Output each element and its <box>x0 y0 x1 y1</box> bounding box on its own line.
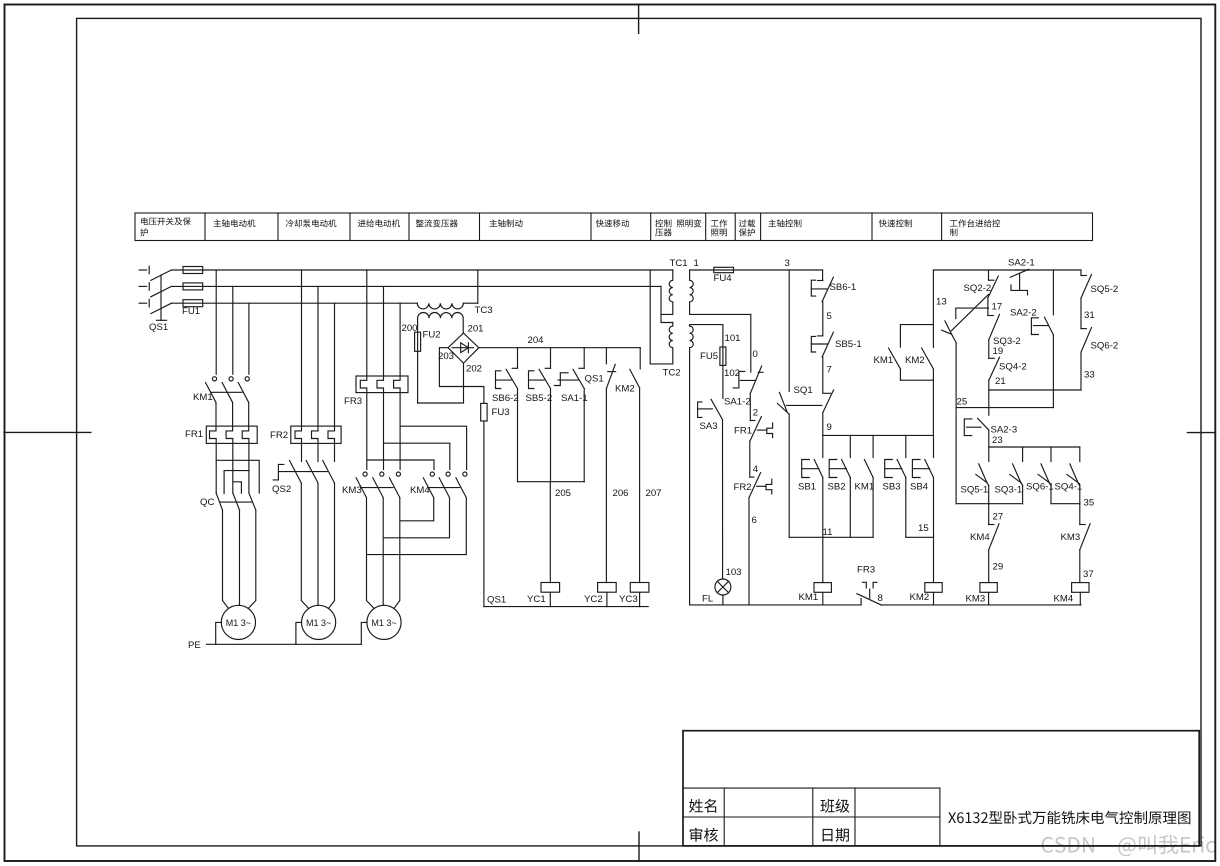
svg-text:33: 33 <box>1084 370 1095 381</box>
transformer TC1 primary <box>661 258 688 314</box>
wire L3 bus <box>171 302 417 304</box>
svg-text:202: 202 <box>466 364 482 375</box>
wire L2 drop through FR2 pole2 <box>312 286 319 461</box>
wire M3 to PE <box>361 622 367 644</box>
svg-text:SB6-1: SB6-1 <box>830 282 857 293</box>
header cell text 过载保护 <box>739 219 756 236</box>
svg-text:SQ4-2: SQ4-2 <box>999 362 1027 373</box>
svg-text:SQ6-2: SQ6-2 <box>1091 341 1119 352</box>
wire node 27 <box>989 504 1003 525</box>
wire KM4 pole1 crossover to phase3 <box>400 498 434 521</box>
switch contact QS1 auxiliary <box>585 348 616 389</box>
wire KM3 outputs to motor M3 <box>367 498 400 609</box>
coil KM3 <box>966 583 998 605</box>
wire node 21 bus <box>989 376 1081 390</box>
header cell text 冷却泵电动机 <box>286 219 337 227</box>
svg-text:SA2-2: SA2-2 <box>1010 308 1037 319</box>
wire M2 to PE <box>296 622 302 644</box>
fuse FU2 <box>402 323 441 403</box>
svg-text:207: 207 <box>646 488 662 499</box>
svg-text:KM4: KM4 <box>970 532 990 543</box>
wire FR3 pole2 feed to KM4 pole2 <box>384 443 450 469</box>
svg-text:KM3: KM3 <box>1061 532 1081 543</box>
transformer TC2 primary <box>650 323 680 379</box>
svg-text:201: 201 <box>468 324 484 335</box>
svg-text:37: 37 <box>1083 569 1094 580</box>
wire node 0 from TC1 secondary <box>751 314 758 372</box>
wire bridge node 203 to FU3 <box>439 348 484 404</box>
watermark CSDN <box>1042 835 1216 856</box>
header cell text 主轴制动 <box>490 219 523 227</box>
svg-text:FL: FL <box>702 594 714 605</box>
wire clutch return rail <box>484 606 648 608</box>
svg-text:102: 102 <box>724 368 740 379</box>
title block outline <box>683 731 1199 846</box>
svg-text:SA3: SA3 <box>700 421 718 432</box>
wire SQ3-1 to lower bus <box>1022 485 1024 503</box>
wire SB2 to node 11 bus <box>849 478 851 538</box>
svg-text:SB4: SB4 <box>910 482 929 493</box>
wire lower bus SQ5-1/SQ3-1 to node 25 <box>956 408 1023 504</box>
header cell text 主轴控制 <box>769 219 802 227</box>
svg-text:13: 13 <box>936 297 947 308</box>
svg-text:KM2: KM2 <box>910 592 930 603</box>
svg-text:21: 21 <box>995 376 1006 387</box>
switch QS2 <box>272 461 335 496</box>
wire SB5-2 to node 205 bus <box>550 389 552 482</box>
svg-text:8: 8 <box>878 593 883 604</box>
contactor contact KM4 interlock <box>970 524 999 550</box>
svg-text:23: 23 <box>992 435 1003 446</box>
wire SQ1 left pole to node 11 bus <box>788 414 790 537</box>
transformer TC3 secondary winding <box>418 313 464 334</box>
svg-text:FR1: FR1 <box>734 426 752 437</box>
wire SQ4-1 to node 35 bus <box>1079 485 1081 503</box>
header cell text 主轴电动机 <box>214 219 256 227</box>
svg-text:SB5-2: SB5-2 <box>526 393 553 404</box>
header cell text 电压开关及保护 <box>140 217 191 236</box>
wire QS1 contact to clutch YC2 node 206 <box>606 389 628 583</box>
wire SA3 to lamp FL <box>722 420 724 579</box>
selector contact SA2-2 <box>1010 270 1053 335</box>
contactor KM1 main contacts <box>193 377 249 403</box>
contactor KM4 main contacts <box>410 472 467 498</box>
svg-text:SA2-3: SA2-3 <box>991 425 1018 436</box>
wire node 3 drop to SQ1 <box>788 270 790 391</box>
lamp FL node 103 <box>702 567 742 605</box>
wire node 15 bus to coil KM2 <box>906 478 934 583</box>
contactor KM3 main contacts <box>342 472 401 498</box>
fuse FU5 node 101/102 <box>700 325 741 399</box>
thermal contact FR1 <box>734 417 773 442</box>
svg-text:200: 200 <box>402 323 418 334</box>
wire control return rail left of FR3 <box>690 604 862 606</box>
contactor contact KM1 self-hold <box>855 435 875 492</box>
svg-text:KM2: KM2 <box>615 384 635 395</box>
svg-text:SQ3-1: SQ3-1 <box>995 485 1023 496</box>
svg-text:QS1: QS1 <box>585 374 604 385</box>
coil KM4 <box>1054 583 1090 605</box>
wire node 205 bus <box>518 482 585 499</box>
clutch coil YC1 <box>527 583 560 607</box>
svg-text:17: 17 <box>992 302 1003 313</box>
svg-text:11: 11 <box>823 527 833 538</box>
transformer TC3 primary winding <box>417 270 492 316</box>
drawing title X6132型卧式万能铣床电气控制原理图 <box>948 811 1190 825</box>
wire L2 drop to KM1 pole2 <box>232 286 234 374</box>
limit switch SQ2-2 changeover <box>942 270 999 343</box>
svg-text:1: 1 <box>694 258 699 269</box>
svg-text:35: 35 <box>1084 498 1095 509</box>
limit switch contact SQ6-1 <box>1026 464 1054 493</box>
pushbutton SB2 start <box>828 435 851 492</box>
wire 205 bus to clutch YC1 <box>549 482 551 583</box>
svg-text:QS2: QS2 <box>272 484 291 495</box>
wire SB6-2 to node 205 bus <box>517 389 519 482</box>
wire SQ5-1 to lower bus <box>988 485 990 503</box>
wire node 23 bus <box>989 430 1080 462</box>
svg-text:19: 19 <box>993 346 1004 357</box>
limit switch SQ1 changeover <box>777 385 833 414</box>
transformer TC1 secondary <box>690 270 751 314</box>
svg-text:FR1: FR1 <box>185 429 203 440</box>
header cell text 工作照明 <box>711 219 727 236</box>
svg-text:31: 31 <box>1084 310 1095 321</box>
contactor contact KM1 rapid <box>874 325 934 370</box>
thermal overload FR1 <box>185 426 257 443</box>
limit switch contact SQ3-1 <box>995 464 1023 496</box>
wire top feed bus right section <box>933 269 1081 271</box>
centering tick right <box>1188 432 1216 434</box>
limit switch contact SQ5-2 <box>1081 270 1118 298</box>
wire L2 drop through FR3 pole2 <box>377 286 384 469</box>
wire L1 bypass to TC2 primary <box>649 270 651 364</box>
wire QS2 to motor M2 <box>301 483 334 609</box>
svg-text:5: 5 <box>827 311 832 322</box>
svg-text:YC2: YC2 <box>584 594 603 605</box>
svg-text:TC1: TC1 <box>670 258 688 269</box>
reversing switch QC <box>200 460 259 510</box>
contactor contact KM3 interlock <box>1061 504 1091 550</box>
title block label 审核 <box>690 828 718 842</box>
svg-text:FU1: FU1 <box>182 306 200 317</box>
svg-text:QC: QC <box>200 497 214 508</box>
pushbutton SB6-1 stop <box>811 270 856 302</box>
wire FR3 pole3 feed to KM4 pole3 <box>400 426 467 469</box>
wire SB1 to node 11 and coil KM1 <box>823 478 833 583</box>
limit switch contact SQ4-2 <box>989 357 1027 380</box>
selector contact SA1-1 <box>554 348 587 404</box>
svg-text:25: 25 <box>957 397 968 408</box>
wire node 35 bus <box>1051 498 1094 509</box>
wire L1 drop through FR2 pole1 <box>295 270 302 462</box>
svg-text:SB3: SB3 <box>883 482 901 493</box>
title block label 班级 <box>821 799 850 813</box>
svg-text:FR3: FR3 <box>344 396 362 407</box>
wire M1 to PE <box>216 622 222 644</box>
wire node 2 <box>750 393 758 420</box>
svg-text:KM1: KM1 <box>193 392 213 403</box>
svg-text:TC3: TC3 <box>475 305 493 316</box>
wire node 13 riser <box>933 270 946 347</box>
svg-text:SA2-1: SA2-1 <box>1008 258 1035 269</box>
wire SQ2-2 lever to node 25 bus <box>955 343 957 408</box>
svg-text:FU3: FU3 <box>492 407 510 418</box>
header cell text 快速控制 <box>879 219 912 227</box>
svg-text:FR2: FR2 <box>270 430 288 441</box>
contactor contact KM2 rapid <box>905 348 934 369</box>
wire node 9 bus <box>823 413 934 436</box>
svg-text:204: 204 <box>528 335 545 346</box>
header table grid <box>135 213 1093 241</box>
wire L1 bus <box>171 269 672 271</box>
svg-text:7: 7 <box>827 365 832 376</box>
wire node 33 to node 21 bus <box>1081 352 1095 390</box>
wire L3 drop to KM1 pole3 <box>248 303 250 374</box>
title block label 日期 <box>823 828 849 842</box>
wire KM4 pole3 crossover to phase1 <box>367 498 467 555</box>
svg-text:M1 3~: M1 3~ <box>371 618 396 628</box>
wire FR3 pole1 feed to KM4 pole1 <box>367 460 434 470</box>
rectifier bridge VC <box>438 324 484 364</box>
svg-text:SB1: SB1 <box>798 482 816 493</box>
svg-text:203: 203 <box>438 351 454 362</box>
svg-text:M1 3~: M1 3~ <box>226 618 251 628</box>
svg-text:205: 205 <box>555 488 571 499</box>
wire KM4 pole2 crossover to phase2 <box>384 498 450 538</box>
svg-text:15: 15 <box>918 523 929 534</box>
title block row and column lines <box>683 788 940 846</box>
svg-text:29: 29 <box>993 562 1004 573</box>
wire node 17 <box>988 298 1002 316</box>
svg-text:PE: PE <box>188 640 201 651</box>
svg-text:FR2: FR2 <box>734 482 752 493</box>
wire SB3 to node 15 bus <box>905 478 907 538</box>
svg-text:6: 6 <box>752 515 757 526</box>
svg-text:103: 103 <box>726 567 742 578</box>
svg-text:0: 0 <box>753 349 758 360</box>
thermal contact FR2 <box>734 473 772 498</box>
svg-text:KM4: KM4 <box>1054 594 1074 605</box>
selector contact SA2-1 <box>1008 258 1035 295</box>
wire FL to control return rail <box>722 595 724 605</box>
svg-text:27: 27 <box>993 512 1004 523</box>
wire L1 drop through FR3 pole1 <box>360 270 367 470</box>
wire TC2 secondary left rail down <box>689 348 691 605</box>
limit switch contact SQ6-2 <box>1081 328 1118 353</box>
wire node 7 <box>823 357 832 393</box>
title block label 姓名 <box>689 799 716 813</box>
coil KM1 <box>799 583 832 605</box>
wire QC to motor M1 <box>223 510 256 608</box>
svg-text:KM4: KM4 <box>410 485 430 496</box>
wire L2 bus <box>171 285 661 287</box>
selector contact SA1-2 <box>724 366 763 407</box>
wire node 5 <box>823 302 832 336</box>
svg-text:YC3: YC3 <box>619 594 638 605</box>
svg-text:SA1-2: SA1-2 <box>724 397 751 408</box>
coil KM2 <box>910 583 943 605</box>
wire FU2 to bridge node 202 <box>418 363 482 403</box>
svg-text:FU5: FU5 <box>700 351 718 362</box>
selector switch SA3 <box>698 399 723 432</box>
svg-text:QS1: QS1 <box>149 322 168 333</box>
svg-text:SQ5-1: SQ5-1 <box>961 485 989 496</box>
motor M3 <box>367 605 401 639</box>
pushbutton SB6-2 <box>492 348 519 404</box>
switch QS1 main disconnect <box>139 266 171 333</box>
clutch coil YC3 <box>619 583 649 607</box>
wire node 25 bus <box>956 390 1053 415</box>
wire node 31 <box>1081 298 1095 329</box>
header cell text 整流变压器 <box>416 219 458 227</box>
clutch coil YC2 <box>584 583 616 607</box>
thermal contact FR3 in return rail <box>857 565 883 606</box>
contactor contact KM2 auxiliary for YC3 <box>615 348 640 395</box>
transformer TC2 secondary <box>690 325 723 348</box>
thermal overload FR3 <box>344 376 408 407</box>
svg-text:SQ4-1: SQ4-1 <box>1055 482 1083 493</box>
limit switch contact SQ3-2 <box>988 314 1021 347</box>
wire node 11 bus <box>789 536 873 538</box>
pushbutton SB4 <box>910 435 934 492</box>
svg-text:2: 2 <box>753 408 758 419</box>
wire SA1-1 to node 205 bus <box>583 389 585 482</box>
svg-text:101: 101 <box>725 333 741 344</box>
pushbutton SB1 start <box>798 435 823 492</box>
centering tick left <box>4 431 91 433</box>
svg-text:FU2: FU2 <box>423 330 441 341</box>
selector contact SA2-3 <box>964 418 1017 435</box>
pushbutton SB3 <box>883 435 906 492</box>
fuse FU3 <box>481 403 510 421</box>
header cell text 工作台进给控制 <box>950 219 1000 236</box>
wire control return rail right of FR3 <box>882 604 1081 606</box>
wire KM1 outputs through FR1 heaters <box>210 402 249 493</box>
svg-text:KM1: KM1 <box>874 355 894 366</box>
motor M1 <box>221 605 255 639</box>
wire L3 drop through FR2 pole3 <box>328 303 335 461</box>
header cell text 快速移动 <box>596 219 629 227</box>
svg-text:206: 206 <box>613 488 629 499</box>
wire SQ6-1 to node 35 bus <box>1050 485 1052 503</box>
header cell text 控制照明变压器 <box>655 219 701 236</box>
svg-text:SQ2-2: SQ2-2 <box>964 283 992 294</box>
svg-text:KM3: KM3 <box>342 485 362 496</box>
wire KM1/KM2 contacts join to node 9 bus <box>900 369 933 435</box>
svg-text:FU4: FU4 <box>714 273 733 284</box>
svg-text:KM1: KM1 <box>855 482 875 493</box>
pushbutton SB5-2 <box>526 348 553 404</box>
motor M2 <box>302 605 336 639</box>
wire node 204 bus <box>479 335 640 348</box>
centering tick bottom <box>638 832 640 861</box>
wire PE earth rail <box>188 640 361 651</box>
fuse FU1 <box>182 267 203 318</box>
pushbutton SB5-1 stop <box>811 332 861 357</box>
svg-text:M1 3~: M1 3~ <box>306 618 331 628</box>
svg-text:SB5-1: SB5-1 <box>835 339 862 350</box>
wire node 6 to control return rail <box>749 498 757 605</box>
svg-text:SB6-2: SB6-2 <box>492 393 519 404</box>
svg-text:KM3: KM3 <box>966 594 986 605</box>
svg-text:9: 9 <box>827 422 832 433</box>
svg-text:SQ1: SQ1 <box>794 385 813 396</box>
wire node 29 to coil KM3 <box>989 550 1003 583</box>
header cell text 进给电动机 <box>358 219 400 227</box>
svg-text:4: 4 <box>753 464 759 475</box>
svg-text:FR3: FR3 <box>857 565 875 576</box>
svg-text:3: 3 <box>785 258 790 269</box>
svg-text:YC1: YC1 <box>527 594 546 605</box>
wire node 1 and fuse FU4 <box>690 258 823 284</box>
centering tick top <box>638 5 640 34</box>
limit switch contact SQ4-1 <box>1055 464 1083 493</box>
limit switch contact SQ5-1 <box>961 464 989 496</box>
svg-text:TC2: TC2 <box>663 368 681 379</box>
svg-text:SQ6-1: SQ6-1 <box>1026 482 1054 493</box>
svg-text:KM1: KM1 <box>799 592 819 603</box>
wire L2 to transformer primaries <box>661 286 673 322</box>
svg-text:SB2: SB2 <box>828 482 846 493</box>
wire node 37 to coil KM4 <box>1080 550 1094 583</box>
wire L1 drop to KM1 pole1 <box>215 270 217 374</box>
wire L3 drop through FR3 pole3 <box>394 303 401 469</box>
svg-text:KM2: KM2 <box>905 355 925 366</box>
wire KM1 contact to node 11 bus <box>872 478 874 538</box>
svg-text:SQ5-2: SQ5-2 <box>1091 284 1119 295</box>
wire SA2-2 to node 25 bus <box>1052 335 1054 408</box>
wire node 4 <box>750 441 759 477</box>
wire FU3 down to electromagnet return rail <box>484 421 506 607</box>
wire KM2 contact to clutch YC3 node 207 <box>640 388 662 583</box>
thermal overload FR2 <box>270 426 341 443</box>
svg-text:QS1: QS1 <box>487 595 506 606</box>
wire node 19 <box>989 340 1003 359</box>
